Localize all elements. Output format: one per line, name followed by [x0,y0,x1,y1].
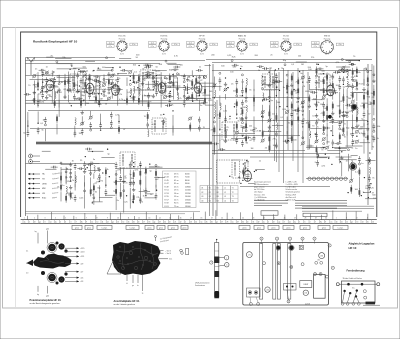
trimmer Ct120 [350,179,353,182]
junction J18 [70,180,71,181]
wire W253 [351,155,358,157]
junction J79 [268,72,269,73]
capacitor C103 [339,121,341,124]
tube Rö1b [86,81,94,94]
junction J82 [78,91,79,92]
svg-text:UKW: UKW [303,284,308,286]
coil L8 [177,93,178,100]
svg-text:200: 200 [155,179,159,181]
junction J103 [149,163,150,164]
wire W246 [320,89,337,91]
wire W101 [225,105,227,121]
terminal T39 [245,100,247,102]
terminal T34 [213,121,215,123]
junction J93 [172,74,173,75]
wire W66 [70,169,72,182]
svg-text:26: 26 [211,222,213,224]
resistor R13 [108,78,110,87]
capacitor C183 [345,104,348,106]
svg-text:13: 13 [357,222,359,224]
wire W107 [253,80,255,92]
wire W184 [57,68,77,70]
svg-text:4.3: 4.3 [26,273,28,275]
capacitor C59 [133,180,135,183]
svg-text:gn/ws: gn/ws [286,227,290,229]
wire W162 [367,110,369,126]
wire W41 [176,78,178,95]
capacitor C11 [67,87,69,90]
svg-text:10k: 10k [133,65,136,67]
wire W237 [353,92,366,94]
wire W181 [205,64,211,66]
wire W92 [213,77,215,89]
svg-text:Lautspr.: Lautspr. [130,226,136,229]
trimmer Ct84 [301,76,304,79]
wire bus riser 20 [252,213,254,220]
svg-text:2n: 2n [288,123,290,125]
bus terminal box 10 [254,225,264,229]
svg-text:1k: 1k [347,79,349,81]
trimmer Ct78 [268,119,271,122]
alignment screw 3 [290,266,293,269]
wire W147 [342,104,344,121]
junction J122 [227,87,228,88]
junction J20 [105,184,106,185]
wire W14 [67,72,69,89]
svg-text:0,5: 0,5 [241,81,245,83]
terminal T46 [268,130,270,132]
capacitor C52 [84,161,86,164]
wire W88 [139,187,141,203]
wire W44 [187,84,189,93]
wire W260 [365,198,375,200]
svg-text:200: 200 [211,54,215,56]
coil L17 [220,103,221,110]
wire AVC rail 1 [26,100,206,102]
ground G11 [142,81,144,83]
alignment point L66 [303,290,308,295]
junction J69 [69,69,70,70]
svg-text:4,7k: 4,7k [178,98,182,100]
capacitor C178 [331,92,334,94]
svg-text:K 41: K 41 [165,173,170,175]
wire W213 [151,102,167,104]
balloon right of plan [331,266,334,269]
svg-text:3n: 3n [200,105,202,107]
wire bus riser 3 [51,212,53,220]
capacitor C125 [173,66,176,68]
pilot lamp La3 [328,115,332,119]
wire W63 [60,192,62,201]
junction J63 [119,67,120,68]
junction J132 [328,158,329,159]
terminal T14 [164,77,166,79]
svg-text:2n: 2n [346,161,348,163]
resistor R12 [98,98,100,107]
svg-text:12: 12 [346,222,348,224]
trimmer Ct18 [111,74,114,77]
wire W69 [84,175,86,186]
junction J52 [339,141,340,142]
svg-text:12: 12 [107,222,109,224]
coil L13 [94,165,95,172]
svg-text:T2: T2 [232,192,234,194]
junction J110 [293,89,294,90]
svg-text:26: 26 [284,218,286,220]
svg-text:12k: 12k [88,75,91,77]
svg-text:200: 200 [348,98,352,100]
svg-text:2n: 2n [183,100,185,102]
wire IF bundle v9 [307,72,309,150]
ground G43 [363,87,365,89]
wire W251 [366,160,376,162]
capacitor C70 [236,137,238,140]
svg-text:gn/ws: gn/ws [159,227,163,229]
svg-text:T1: T1 [232,188,234,190]
svg-text:50: 50 [23,133,26,135]
svg-text:25: 25 [80,160,83,162]
wire W100 [225,94,227,100]
svg-text:5k: 5k [42,130,44,132]
svg-text:K 47: K 47 [165,183,170,185]
wire W130 [302,131,304,139]
svg-text:32: 32 [258,222,260,224]
junction J144 [361,195,362,196]
junction J136 [339,148,340,149]
resistor R89 [342,94,344,103]
trimmer Ct16 [103,83,106,86]
svg-text:6 7a: 6 7a [189,46,192,48]
wire bus riser 22 [273,214,275,219]
svg-text:100: 100 [355,189,359,191]
junction J39 [286,106,287,107]
wire rail y168 mid [115,168,212,170]
ground G13 [164,82,166,84]
junction J105 [65,176,66,177]
terminal T27 [70,176,72,178]
wire W170 [166,62,176,64]
svg-text:gn/ws: gn/ws [182,227,186,229]
svg-text:7200: 7200 [185,177,190,179]
svg-text:70: 70 [28,85,31,87]
coil L29 [369,167,370,174]
wire W161 [367,98,369,108]
wire W209 [170,76,177,78]
resistor R20 [160,82,162,91]
junction J28 [236,113,237,114]
capacitor C30 [183,74,185,77]
wire bus riser 6 [84,213,86,220]
ground G28 [245,95,247,97]
svg-text:2n: 2n [70,64,72,66]
capacitor C79 [275,73,277,76]
wire bus riser 23 [284,215,286,220]
resistor R49 [213,125,215,134]
wire W254 [339,159,357,161]
svg-text:100: 100 [209,91,213,93]
svg-text:1M: 1M [100,98,103,100]
capacitor C158 [75,98,78,100]
junction J27 [225,77,226,78]
wire W84 [123,195,125,213]
wire bus riser 21 [263,216,265,220]
wire W205 [89,100,108,102]
svg-text:27: 27 [221,222,223,224]
wire W143 [339,92,341,106]
capacitor C130 [39,69,42,71]
capacitor C147 [50,85,53,87]
trimmer Ct96 [326,146,329,149]
wire bus riser 26 [321,215,323,220]
svg-text:15: 15 [128,222,130,224]
wire W135 [316,95,318,107]
alignment point L86 [319,253,325,259]
resistor R82 [326,73,328,82]
terminal T66 [348,149,350,151]
coil L10 [148,130,149,137]
capacitor C162 [167,81,170,83]
wire bus riser 19 [240,212,242,219]
resistor R52 [236,99,238,108]
svg-text:6 7a: 6 7a [273,46,276,48]
terminal T26 [70,172,72,174]
svg-text:4.7: 4.7 [81,272,85,274]
junction J48 [326,94,327,95]
resistor R23 [191,79,193,88]
junction J146 [364,177,365,178]
wire W225 [115,181,126,183]
trimmer Ct33 [204,76,207,79]
junction J138 [369,152,370,153]
svg-text:4,7k: 4,7k [115,114,119,116]
wire W78 [115,170,117,186]
trimmer Ct8 [51,78,54,81]
wire W54 [56,124,58,135]
capacitor C23 [148,93,150,96]
terminal T42 [262,80,264,82]
coil L5 [134,86,135,93]
resistor R28 [204,96,206,105]
svg-text:22: 22 [180,222,182,224]
svg-text:6,3 V: 6,3 V [325,54,330,56]
svg-text:5k: 5k [291,115,293,117]
wire W87 [129,193,131,208]
svg-text:1n: 1n [259,160,261,162]
capacitor C44 [110,120,112,123]
svg-text:6: 6 [305,222,306,224]
svg-text:7: 7 [314,238,315,240]
alignment screw 4 [301,263,304,266]
trimmer Ct40 [89,116,92,119]
svg-text:25: 25 [265,147,268,149]
terminal T15 [169,82,171,84]
junction J81 [170,91,171,92]
resistor R70 [297,77,299,86]
potentiometer arrow 4.7 [65,271,79,273]
wire W151 [346,121,348,136]
resistor R99 [367,88,369,97]
wire W72 [90,165,92,177]
wire top rail 2 [26,60,206,62]
terminal T6 [103,94,105,96]
capacitor C56 [120,175,122,178]
svg-text:25: 25 [206,222,208,224]
svg-text:gn/ws: gn/ws [322,227,326,229]
resistor R57 [245,134,247,143]
capacitor C181 [293,109,296,111]
wire bus riser 8 [109,213,111,220]
terminal T73 [349,61,351,63]
trimmer Ct85 [301,101,304,104]
svg-text:500: 500 [365,188,369,190]
svg-text:100: 100 [308,69,312,71]
capacitor C109 [352,131,354,134]
svg-text:EABC 80: EABC 80 [238,35,247,38]
terminal T8 [111,69,113,71]
junction J74 [275,69,276,70]
capacitor C185 [77,168,80,170]
capacitor C153 [82,91,85,93]
terminal T58 [346,116,348,118]
svg-text:6,3 V: 6,3 V [200,54,205,56]
wire bus riser 15 [193,212,195,219]
svg-text:70: 70 [203,127,206,129]
junction J45 [316,109,317,110]
coil L11 [66,186,67,193]
resistor R16 [133,94,135,103]
wire W154 [356,93,358,101]
wire W131 [308,84,310,90]
svg-text:20: 20 [164,222,166,224]
capacitor C184 [86,164,89,166]
wire W12 [64,74,66,85]
wire W52 [37,111,39,123]
capacitor C98 [332,117,334,120]
junction J11 [199,95,200,96]
ground G17 [198,75,200,77]
svg-text:9600: 9600 [185,183,190,185]
wire W97 [219,120,221,131]
wire W138 [326,98,328,108]
ferrite antenna rod [210,239,229,298]
ground G24 [133,188,135,190]
wire W67 [74,171,76,187]
wire W249 [248,183,256,185]
resistor R102 [373,98,375,107]
wire W117 [275,106,277,121]
junction J108 [279,90,280,91]
terminal T13 [160,90,162,92]
resistor R9 [89,74,91,83]
wire W128 [302,86,304,92]
junction J139 [318,155,319,156]
wire W98 [219,133,221,141]
trimmer Ct24 [155,83,158,86]
svg-text:6 7a: 6 7a [109,46,112,48]
coil L28 [351,160,352,167]
trimmer Ct77 [261,139,264,142]
wire W178 [85,60,95,62]
wire W257 [334,148,347,150]
junction J92 [156,75,157,76]
junction J143 [351,188,352,189]
svg-text:5k: 5k [114,182,116,184]
ground G26 [225,139,227,141]
wire W139 [326,122,328,136]
wire AVC rail 2 [26,102,206,104]
wire W259 [336,156,352,158]
capacitor C97 [332,74,334,77]
svg-text:ws: ws [331,222,333,224]
wire bus riser 17 [215,210,217,219]
resistor R62 [268,143,270,152]
svg-text:500: 500 [221,65,225,67]
wire W216 [154,176,165,178]
junction J3 [130,76,131,77]
wire pre-bus rail b [26,213,186,215]
junction J17 [172,110,173,111]
tube socket top view EM 84 [312,36,344,56]
wire mid vertical b [216,100,218,216]
wire W137 [326,82,328,95]
ground G40 [352,77,354,79]
svg-text:9: 9 [107,218,108,220]
svg-text:8,2k: 8,2k [152,124,156,126]
wire W11 [58,100,60,117]
terminal T53 [323,133,325,135]
svg-text:27k: 27k [117,169,120,171]
junction J84 [203,76,204,77]
resistor R92 [352,91,354,100]
svg-text:1n: 1n [150,194,152,196]
remote control box [336,281,380,305]
tube socket top view EF 89 [187,36,218,56]
capacitor C136 [232,64,235,66]
svg-text:U2: U2 [201,192,203,194]
capacitor C106 [352,83,354,86]
wire W106 [245,113,247,127]
svg-text:1n: 1n [217,114,219,116]
junction J14 [100,129,101,130]
capacitor C127 [196,69,199,71]
svg-text:70: 70 [312,125,315,127]
svg-text:6 7a: 6 7a [151,46,154,48]
junction J106 [156,190,157,191]
junction J31 [242,135,243,136]
wire W59 [118,115,120,124]
svg-text:4,7k: 4,7k [223,111,227,113]
svg-text:4.15: 4.15 [81,248,86,250]
svg-text:22: 22 [242,218,244,220]
capacitor C54 [105,189,107,192]
wire W191 [145,83,162,85]
bus terminal box 13 [300,225,310,229]
svg-text:28: 28 [227,222,229,224]
svg-text:ohne Signal: ohne Signal [254,192,263,194]
ground G45 [341,156,343,158]
svg-text:47: 47 [368,114,371,116]
wire rail y120 right [240,120,368,122]
ground G42 [356,124,358,126]
svg-text:→ Seil 4: → Seil 4 [165,253,171,255]
svg-text:27k: 27k [52,103,55,105]
trimmer Ct69 [235,131,238,134]
resistor R21 [169,73,171,82]
ground G1 [33,90,35,92]
svg-text:15k: 15k [79,133,82,135]
capacitor C128 [143,64,146,66]
wire W61 [172,126,174,136]
